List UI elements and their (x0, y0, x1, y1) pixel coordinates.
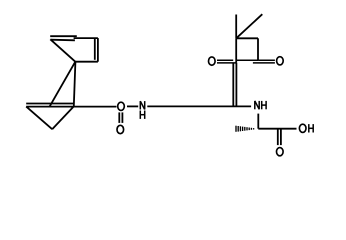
wire right ketone C=O upper line (258, 59, 275, 61)
wire bicyclic top bond M-B (74, 37, 98, 39)
wire carbamate C=O double bond line 2 (121, 112, 123, 123)
wire left ketone C=O lower line (217, 62, 236, 64)
wire bicyclic bond C-D (75, 61, 98, 63)
wire bicyclic diagonal bond A-D (50, 39, 75, 61)
wire bottom-ring double-bond inner line (26, 103, 73, 105)
node H on carbamate nitrogen (140, 111, 144, 119)
wire cyclobutane top edge (236, 37, 258, 39)
wire right ketone C=O lower line (253, 62, 275, 64)
wire cyclobutane left edge (235, 38, 237, 63)
wire bicyclic top bond A-M (50, 35, 77, 37)
wire bicyclic vertical bond D-E (74, 62, 76, 107)
wire bond NH to alpha carbon (257, 114, 259, 129)
wire methyl bond diagonal (236, 14, 262, 38)
wire bicyclic top double-bond inner line (51, 39, 75, 42)
wire carboxyl C=O double bond line 2 (280, 129, 282, 145)
wire carbamate C=O double bond line 1 (118, 112, 120, 123)
node O carbamate ester oxygen (118, 102, 125, 110)
wire triangle edge G-I (26, 107, 52, 130)
node O carboxyl carbonyl oxygen (277, 148, 284, 156)
wire bond alpha carbon to carboxyl to OH (258, 128, 296, 130)
wire bond O-N (127, 105, 138, 107)
wire bicyclic right bond B-C outer (97, 38, 99, 62)
node N carbamate nitrogen (140, 101, 144, 109)
wire cyclobutane bottom edge (236, 59, 258, 61)
node H of amide NH (262, 101, 266, 109)
wire methyl bond vertical (235, 15, 237, 39)
wire carboxyl C=O double bond line 1 (277, 129, 279, 145)
wire left ketone C=O upper line (217, 59, 233, 61)
wire bicyclic diagonal bond D-F (50, 62, 76, 107)
wire triangle edge I-E (52, 106, 74, 129)
wire long chain bond N to vinyl carbon to NH (147, 105, 251, 107)
node O left ketone oxygen (209, 57, 216, 65)
wire bottom-ring main line G-E continuing to ester O (26, 106, 116, 108)
wire exocyclic C=C double bond line 1 (232, 63, 234, 106)
node O right ketone oxygen (277, 57, 284, 65)
hashed wedge bond methyl (236, 126, 254, 132)
wire bicyclic right double-bond inner line (94, 39, 96, 60)
node O carbamate carbonyl oxygen (117, 125, 124, 133)
wire cyclobutane right edge (257, 38, 259, 60)
node N of amide NH (255, 101, 259, 109)
wire exocyclic C=C double bond line 2 (235, 63, 237, 107)
node H of hydroxyl OH (309, 124, 313, 132)
node O of hydroxyl OH (299, 124, 306, 132)
